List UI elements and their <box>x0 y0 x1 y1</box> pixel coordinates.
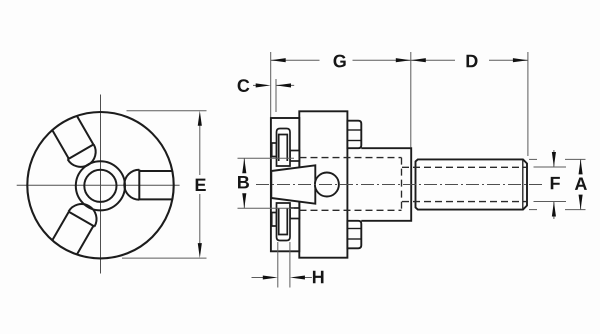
socket outer top <box>277 129 291 167</box>
dimension A ext stubs at shaft corners <box>529 158 537 160</box>
ext line shared G/C left <box>270 52 272 117</box>
ext line C right <box>275 79 277 112</box>
top jaw socket <box>272 129 300 167</box>
dimension B arrows <box>243 158 245 172</box>
label G <box>334 55 346 68</box>
dimension D <box>411 59 455 61</box>
ext line G/D middle <box>410 52 412 148</box>
horizontal centerline front view <box>17 184 180 186</box>
body block <box>299 111 347 257</box>
chuck rim circle <box>27 112 173 258</box>
collet <box>271 165 315 203</box>
ball lower-left jaw <box>69 199 102 227</box>
label F <box>551 177 560 189</box>
socket right step bottom <box>290 208 299 219</box>
socket left step top <box>272 143 277 157</box>
socket inner lines bottom <box>279 208 288 235</box>
jaw slot lower-left <box>52 198 102 255</box>
socket outer bottom <box>277 203 291 241</box>
label C <box>238 79 250 92</box>
dimension F ext lines <box>534 166 567 168</box>
dimension B ext lines <box>238 157 295 159</box>
vertical centerline front view <box>100 95 102 274</box>
label D <box>466 55 477 67</box>
shaft <box>416 159 528 209</box>
bottom jaw socket <box>272 203 300 241</box>
nut top facets <box>347 129 361 131</box>
dimension F arrows (outside) <box>553 150 555 167</box>
collet ball <box>315 173 339 197</box>
nut bottom facets <box>347 228 361 230</box>
label A <box>575 178 587 190</box>
hub bore circle <box>84 170 116 202</box>
jaw slot right (3 o'clock) <box>124 170 172 200</box>
ball right jaw <box>124 170 139 200</box>
intermediate block <box>361 148 411 221</box>
dimension G <box>271 59 320 61</box>
hub outer circle <box>76 161 125 210</box>
dimension H ext lines <box>277 242 279 288</box>
dimension H arrows (outside) <box>252 277 265 279</box>
socket right step top <box>290 151 299 162</box>
dimension C <box>253 84 258 86</box>
socket left step bottom <box>272 213 277 227</box>
dimension E extension lines <box>127 110 207 112</box>
main centerline side view <box>256 184 542 186</box>
hidden bore dashed lines <box>300 158 527 211</box>
thread minor dashed lines <box>402 166 527 168</box>
label E <box>196 179 206 191</box>
dimension A ext lines <box>565 158 586 160</box>
ext line D right <box>527 52 529 156</box>
dimension A arrows <box>580 159 582 172</box>
dimension E line + arrows <box>199 116 201 175</box>
jaw slot upper-left <box>51 116 101 173</box>
ball upper-left jaw <box>68 144 101 172</box>
nut top <box>347 121 361 149</box>
shaft chamfer line <box>522 160 524 209</box>
socket inner lines top <box>279 135 288 162</box>
label B <box>238 176 249 188</box>
label H <box>313 271 324 283</box>
nut bottom <box>347 221 361 249</box>
face plate <box>271 118 299 251</box>
